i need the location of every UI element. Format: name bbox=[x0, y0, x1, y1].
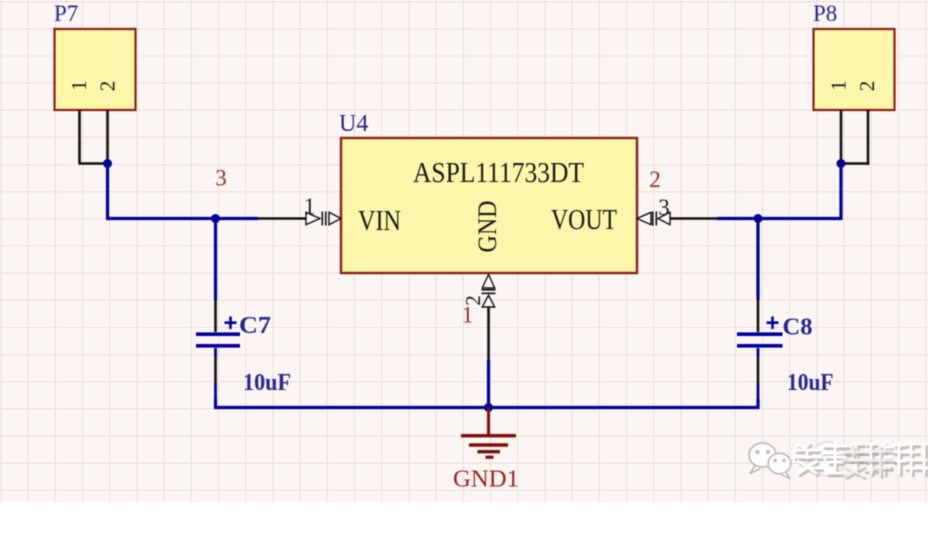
junction P8 bbox=[837, 159, 846, 168]
capacitor C8 bbox=[737, 300, 834, 400]
junction P7 bbox=[103, 159, 112, 168]
watermark ghost text overlay bbox=[842, 446, 895, 479]
wire net1 GND vertical bbox=[487, 360, 490, 408]
svg-text:C8: C8 bbox=[783, 315, 813, 341]
watermark text glyphs bbox=[794, 443, 928, 476]
connector P7 bbox=[54, 1, 136, 110]
wire net1 C7 bottom riser bbox=[214, 399, 217, 408]
svg-text:3: 3 bbox=[658, 195, 670, 220]
wire net1 C8 bottom riser bbox=[756, 399, 759, 408]
svg-text:2: 2 bbox=[96, 81, 120, 92]
svg-text:2: 2 bbox=[855, 81, 879, 92]
svg-text:1: 1 bbox=[304, 194, 316, 219]
wire net2 P8 vertical drop bbox=[839, 164, 842, 221]
svg-text:ASPL111733DT: ASPL111733DT bbox=[413, 158, 584, 189]
wire net3 main horizontal to VIN bbox=[106, 217, 258, 220]
svg-text:P8: P8 bbox=[813, 1, 837, 26]
U4 pin 3 VOUT wire bbox=[670, 217, 717, 220]
wire net2 VOUT horizontal bbox=[717, 217, 843, 220]
U4 pin 1 symbol bbox=[306, 212, 341, 226]
svg-text:P7: P7 bbox=[54, 1, 78, 26]
svg-text:1: 1 bbox=[462, 303, 474, 328]
U4 pin 1 VIN wire bbox=[258, 217, 307, 220]
watermark ghost bubble bbox=[811, 442, 845, 476]
svg-text:C7: C7 bbox=[239, 313, 271, 339]
junction node2 bbox=[754, 214, 763, 223]
wire net3 C7 branch down bbox=[214, 219, 217, 301]
svg-text:VIN: VIN bbox=[358, 206, 401, 237]
U4 pin 2 symbol bbox=[482, 275, 496, 308]
svg-text:GND1: GND1 bbox=[453, 467, 519, 493]
regulator U4 bbox=[339, 111, 637, 273]
svg-text:3: 3 bbox=[215, 166, 227, 191]
svg-text:GND: GND bbox=[473, 201, 502, 253]
P8 pin 2 bbox=[867, 110, 870, 165]
svg-text:VOUT: VOUT bbox=[551, 205, 617, 236]
junction node3 bbox=[211, 214, 220, 223]
capacitor C7 bbox=[196, 300, 291, 400]
wire P7 pin link bbox=[79, 162, 108, 165]
svg-text:1: 1 bbox=[67, 80, 91, 91]
wire net2 C8 branch down bbox=[756, 219, 759, 301]
P7 pin 1 bbox=[78, 110, 81, 164]
U4 pin 2 GND wire bbox=[487, 306, 490, 360]
watermark wechat icon bbox=[749, 443, 791, 479]
P8 pin 1 bbox=[840, 110, 843, 164]
U4 pin 3 symbol bbox=[637, 212, 670, 226]
P7 pin 2 bbox=[106, 110, 109, 164]
wire net3 P7 vertical drop bbox=[106, 164, 109, 219]
junction node1 GND bbox=[484, 403, 493, 412]
wire P8 pin link bbox=[841, 162, 869, 165]
connector P8 bbox=[813, 1, 895, 110]
svg-text:U4: U4 bbox=[339, 111, 368, 137]
svg-text:10uF: 10uF bbox=[787, 370, 834, 396]
wire net1 bottom horizontal bbox=[214, 406, 760, 409]
ground GND1 power port bbox=[453, 408, 519, 493]
svg-text:2: 2 bbox=[649, 167, 661, 192]
svg-text:10uF: 10uF bbox=[243, 370, 291, 396]
svg-text:1: 1 bbox=[827, 80, 851, 91]
